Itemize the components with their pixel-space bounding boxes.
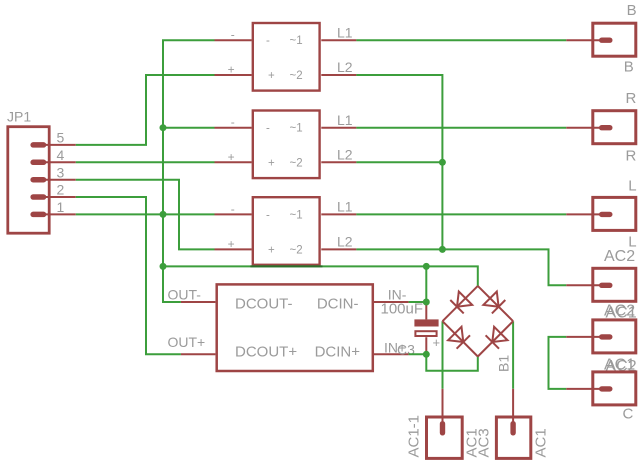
U1 pin + stub [215, 74, 252, 76]
svg-text:3: 3 [57, 164, 65, 180]
rectifier block U1 box [253, 23, 320, 91]
JP1 pin 4 pad [30, 160, 75, 166]
junction at L2 net block3 [439, 246, 446, 253]
svg-text:OUT+: OUT+ [168, 334, 206, 350]
U3 pin ~2 stub [321, 248, 356, 250]
connector box5 [566, 320, 636, 353]
svg-text:C: C [623, 406, 634, 423]
svg-text:L1: L1 [337, 112, 353, 128]
junction at IN- [423, 299, 430, 306]
wire L2 net block2 branch [356, 161, 442, 163]
DC pin OUT+ stub [181, 353, 216, 355]
connector AC1-1 (bottom left) [427, 389, 463, 459]
wire pin4 to block2 + [76, 161, 215, 163]
svg-text:B1: B1 [496, 355, 512, 372]
svg-text:L: L [628, 178, 636, 195]
junction at IN+ [423, 351, 430, 358]
svg-text:+: + [268, 157, 275, 169]
wire minus net horizontal long [163, 266, 478, 286]
U1 pin ~1 stub [321, 39, 356, 41]
svg-text:L2: L2 [337, 234, 353, 250]
U2 pin ~2 stub [321, 161, 356, 163]
svg-text:DCIN+: DCIN+ [315, 343, 361, 360]
connector JP1 [8, 127, 49, 234]
svg-text:5: 5 [57, 130, 65, 146]
wire minus net vertical [163, 40, 215, 302]
svg-text:JP1: JP1 [7, 109, 31, 125]
svg-text:R: R [626, 90, 637, 107]
svg-text:1: 1 [57, 199, 65, 215]
svg-text:B: B [627, 2, 637, 19]
wire bridge left corner down [442, 321, 444, 389]
wire pin5 to block1 + [76, 75, 215, 145]
connector AC2 box [566, 268, 636, 301]
svg-text:L1: L1 [337, 199, 353, 215]
wire minus drop to IN- [425, 266, 427, 302]
svg-text:2: 2 [57, 182, 65, 198]
svg-text:~2: ~2 [290, 157, 303, 169]
connector box6 [566, 372, 636, 405]
U2 pin + stub [215, 161, 252, 163]
wire L2 net block3 to AC2 [356, 249, 566, 285]
svg-text:DCOUT+: DCOUT+ [235, 343, 297, 360]
U2 pin - stub [215, 127, 252, 129]
svg-text:+: + [228, 237, 235, 251]
diode D-tr (cathode to right corner) [483, 292, 505, 314]
wire minus net to block2 - [163, 127, 215, 129]
U3 pin - stub [215, 213, 252, 215]
U2 pin ~1 stub [321, 127, 356, 129]
wire block1 L1 to B [356, 39, 566, 41]
JP1 pin 2 pad [30, 194, 75, 200]
svg-text:~1: ~1 [290, 209, 303, 221]
svg-text:+: + [228, 150, 235, 164]
bridge edge top-left [443, 286, 478, 321]
svg-text:+: + [268, 244, 275, 256]
rectifier block U3 box [253, 197, 320, 265]
svg-text:L2: L2 [337, 59, 353, 75]
junction at minus/long horizontal [160, 263, 167, 270]
junction at long horizontal/IN- drop [423, 263, 430, 270]
svg-text:-: - [266, 123, 270, 135]
svg-text:~1: ~1 [290, 35, 303, 47]
bridge edge top-right [478, 286, 513, 321]
JP1 pin 5 pad [30, 142, 75, 148]
rectifier block U2 box [253, 111, 320, 179]
U1 pin ~2 stub [321, 74, 356, 76]
wire pin2 to OUT+ [76, 197, 181, 354]
diode D-bl (cathode to bottom corner) [448, 327, 470, 349]
bridge rectifier B1 [443, 286, 514, 357]
svg-text:OUT-: OUT- [168, 286, 202, 302]
wire IN+ to bridge bottom [426, 354, 478, 371]
svg-text:B: B [624, 58, 634, 75]
svg-text:L2: L2 [337, 147, 353, 163]
svg-text:-: - [266, 209, 270, 221]
junction at L2 net block2 [439, 159, 446, 166]
DC pin IN+ stub [374, 353, 409, 355]
svg-text:DCIN-: DCIN- [317, 295, 359, 312]
svg-text:-: - [231, 115, 235, 129]
U3 pin + stub [215, 248, 252, 250]
connector L box [566, 197, 636, 230]
wire IN- nub [409, 301, 427, 303]
wire pin1 to block3 - [76, 213, 215, 215]
svg-text:AC2: AC2 [604, 248, 635, 265]
wire bridge right corner down [512, 321, 514, 389]
svg-text:+: + [268, 70, 275, 82]
wire block2 L1 to R [356, 127, 566, 129]
U3 pin ~1 stub [321, 213, 356, 215]
svg-text:~1: ~1 [290, 123, 303, 135]
svg-text:AC1: AC1 [532, 428, 549, 457]
DC converter block box [217, 284, 373, 371]
svg-text:~2: ~2 [290, 70, 303, 82]
junction at minus/pin1 [160, 211, 167, 218]
wire box5 to box6 link [549, 337, 567, 389]
diode D-tl (cathode to left corner) [450, 292, 472, 314]
connector AC3 (bottom right) [496, 389, 530, 459]
JP1 pin 1 pad [30, 212, 75, 218]
svg-text:AC1-1: AC1-1 [405, 415, 422, 458]
wire pin3 to block3 + [76, 180, 215, 250]
svg-text:-: - [231, 28, 235, 42]
svg-text:DCOUT-: DCOUT- [235, 295, 293, 312]
wire minus over block3 edge (dark overlap) [250, 265, 322, 267]
wire IN+ nub [409, 353, 427, 355]
DC pin OUT- stub [181, 301, 216, 303]
svg-text:~2: ~2 [290, 244, 303, 256]
diode D-br (cathode to bottom corner) [486, 327, 508, 349]
wire L2 net block1 down [356, 75, 442, 249]
capacitor C3 [414, 302, 440, 354]
U1 pin - stub [215, 39, 252, 41]
svg-text:AC3: AC3 [476, 428, 493, 457]
svg-text:4: 4 [57, 147, 65, 163]
connector B box [566, 23, 636, 56]
DC pin IN- stub [374, 301, 409, 303]
svg-text:-: - [231, 202, 235, 216]
svg-text:L1: L1 [337, 24, 353, 40]
junction at minus/block2- [160, 124, 167, 131]
svg-text:-: - [266, 35, 270, 47]
svg-text:+: + [228, 63, 235, 77]
bridge edge bottom-right [478, 321, 513, 356]
wire block3 L1 to L [356, 213, 566, 215]
JP1 pin 3 pad [30, 177, 75, 183]
connector R box [566, 111, 636, 144]
bridge edge bottom-left [443, 321, 478, 356]
svg-text:+: + [433, 335, 441, 350]
svg-text:R: R [626, 148, 637, 165]
